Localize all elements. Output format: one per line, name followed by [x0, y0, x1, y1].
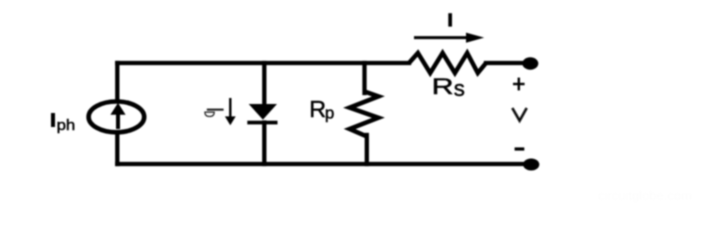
svg-text:R: R: [309, 96, 326, 122]
svg-text:circuitglobe.com: circuitglobe.com: [598, 188, 692, 203]
svg-text:R: R: [432, 74, 454, 99]
svg-text:s: s: [454, 76, 465, 101]
svg-text:ph: ph: [57, 118, 76, 134]
svg-text:p: p: [325, 104, 334, 123]
